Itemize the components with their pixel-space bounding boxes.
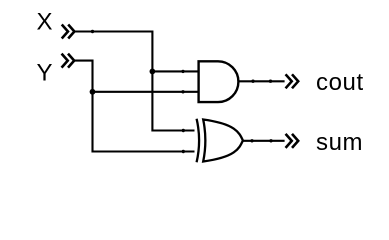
- svg-text:sum: sum: [316, 129, 363, 156]
- svg-text:cout: cout: [316, 69, 364, 96]
- svg-text:Y: Y: [37, 60, 53, 87]
- svg-text:X: X: [37, 9, 53, 36]
